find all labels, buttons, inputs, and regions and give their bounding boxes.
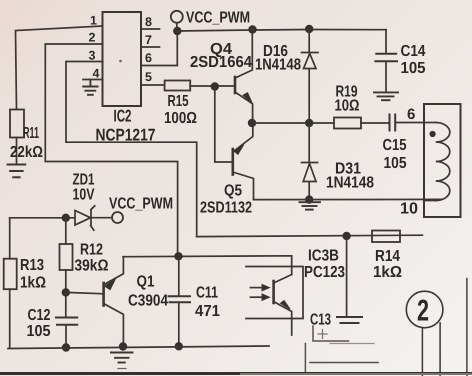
label C11 471 xyxy=(195,285,220,321)
ground at Q1 xyxy=(111,353,133,369)
svg-text:C11: C11 xyxy=(196,285,218,302)
svg-text:3: 3 xyxy=(89,49,96,63)
node ZD1 anode / R12 junction xyxy=(62,214,70,222)
label C15 105 xyxy=(383,137,407,172)
svg-text:R14: R14 xyxy=(375,248,400,265)
label D31 1N4148 xyxy=(326,161,374,192)
scan speck inside IC2 xyxy=(119,60,122,63)
svg-text:10: 10 xyxy=(400,201,418,218)
wire faint lower-left stub xyxy=(330,343,374,345)
bottom scan bar xyxy=(0,372,472,375)
pin 6 xyxy=(145,51,152,65)
node Q4 emitter / Q5 collector junction xyxy=(248,119,256,127)
svg-text:6: 6 xyxy=(145,51,152,65)
pin 1 xyxy=(90,14,97,28)
svg-text:R13: R13 xyxy=(20,257,44,274)
transistor Q1 C3904 xyxy=(66,257,124,347)
svg-text:4: 4 xyxy=(93,67,100,81)
node Q1 collector ground junction xyxy=(119,342,127,350)
svg-text:100Ω: 100Ω xyxy=(164,110,197,127)
svg-text:C3904: C3904 xyxy=(128,293,168,310)
label R13 1kΩ xyxy=(20,257,46,292)
wire pin3 L-shape down to C11 node xyxy=(66,62,197,237)
svg-text:R12: R12 xyxy=(80,242,103,259)
wire left corner down to R13 xyxy=(9,218,11,259)
wire secondary return rail Q5 emitter to transformer pin 10 xyxy=(254,198,442,200)
svg-text:IC2: IC2 xyxy=(114,107,132,126)
diode D31 1N4148 xyxy=(302,123,318,200)
resistor R14 xyxy=(372,231,400,243)
svg-text:1N4148: 1N4148 xyxy=(255,57,301,74)
label C13 xyxy=(310,312,331,329)
wire connector lead right xyxy=(439,323,441,376)
op-amp U1 : IC2 NCP1217 controller body xyxy=(103,12,142,106)
svg-text:C14: C14 xyxy=(401,43,426,60)
wire connector lead left xyxy=(421,328,423,376)
svg-text:PC123: PC123 xyxy=(304,264,345,281)
resistor R11 xyxy=(10,110,24,165)
label Q4 2SD1664 xyxy=(190,41,252,71)
label ZD1 10V xyxy=(73,172,95,204)
node R12 / Q1 base / C12 junction xyxy=(62,288,70,296)
ground at D31 xyxy=(300,202,321,209)
label R12 39kΩ xyxy=(75,242,109,275)
wire base node down to Q5 base xyxy=(215,87,233,163)
capacitor C13 xyxy=(337,236,362,323)
svg-text:105: 105 xyxy=(401,60,426,77)
svg-text:2: 2 xyxy=(89,31,96,45)
svg-text:R11: R11 xyxy=(23,125,39,142)
ground at IC2 pin 4 xyxy=(83,80,97,95)
node C11 / pin3 junction xyxy=(174,252,182,260)
label Q5 2SD1132 xyxy=(200,183,252,217)
resistor R12 xyxy=(60,218,73,293)
svg-text:1: 1 xyxy=(90,14,97,28)
svg-text:471: 471 xyxy=(195,303,220,320)
svg-text:Q1: Q1 xyxy=(137,274,155,291)
transformer T primary winding box xyxy=(424,104,461,217)
pin 7 xyxy=(145,33,152,47)
transistor phototransistor of IC3B xyxy=(274,275,292,336)
svg-text:VCC_PWM: VCC_PWM xyxy=(186,10,250,27)
label R11 22kΩ xyxy=(10,125,43,161)
capacitor C15 xyxy=(390,115,396,131)
optocoupler IC3B PC123 body xyxy=(246,267,303,319)
wire pin5 to R15 xyxy=(141,84,165,86)
transistor Q4 2SD1664 xyxy=(235,30,253,124)
capacitor C14 xyxy=(375,30,397,92)
label transformer pin 10 xyxy=(400,201,418,218)
node VCC_PWM junction dot xyxy=(173,27,181,35)
svg-text:39kΩ: 39kΩ xyxy=(75,258,109,275)
wire pin6 up to VCC_PWM node xyxy=(141,31,177,66)
label IC3B PC123 xyxy=(304,248,345,282)
wire right border edge xyxy=(466,279,468,376)
wire R15 to Q4 base node xyxy=(190,85,233,87)
svg-text:1kΩ: 1kΩ xyxy=(373,264,402,281)
diode D16 1N4148 xyxy=(302,29,319,123)
svg-text:2SD1664: 2SD1664 xyxy=(190,54,252,71)
node R15/Q4/Q5 base junction xyxy=(211,82,219,90)
ground under C14 xyxy=(374,92,398,100)
label VCC_PWM lower xyxy=(109,196,173,213)
pin 2 xyxy=(89,31,96,45)
svg-text:22kΩ: 22kΩ xyxy=(10,144,43,161)
node C12 bottom on ground rail xyxy=(62,343,70,351)
node transformer polarity dot xyxy=(430,131,436,137)
node C13 tap on feedback rail xyxy=(342,232,350,240)
light arrows into phototransistor xyxy=(251,284,270,300)
wire R19 to C15 xyxy=(361,122,390,124)
transistor Q5 2SD1132 xyxy=(233,123,254,200)
pin 7 stub wire xyxy=(141,46,160,48)
svg-text:10V: 10V xyxy=(73,187,95,204)
label IC2 NCP1217 xyxy=(96,107,156,145)
terminal VCC_PWM (lower) xyxy=(112,212,123,223)
svg-text:10Ω: 10Ω xyxy=(335,98,360,115)
label R14 1kΩ xyxy=(373,248,402,281)
svg-text:2: 2 xyxy=(417,295,429,328)
label R15 100Ω xyxy=(164,93,197,127)
wire feedback rail to R14 xyxy=(197,235,423,236)
node C11 bottom on ground rail xyxy=(175,342,183,350)
ground under R11 xyxy=(8,165,26,178)
svg-text:5: 5 xyxy=(145,70,152,84)
wire C15 to transformer pin 6 xyxy=(395,122,424,124)
resistor R15 xyxy=(165,81,191,91)
label 2 xyxy=(417,295,429,328)
svg-text:C15: C15 xyxy=(383,137,407,154)
svg-text:7: 7 xyxy=(145,33,152,47)
terminal circle 2 connector xyxy=(406,291,443,328)
svg-text:6: 6 xyxy=(407,106,415,123)
svg-text:1kΩ: 1kΩ xyxy=(20,275,46,292)
capacitor C12 xyxy=(56,292,77,347)
svg-text:1N4148: 1N4148 xyxy=(326,175,374,192)
wire stub under C13 with polarity mark xyxy=(313,326,349,341)
wire lower horizontal stub xyxy=(310,362,378,364)
label C14 105 xyxy=(401,43,426,77)
capacitor C11 xyxy=(169,256,191,346)
node D16 on rail xyxy=(305,25,313,33)
svg-text:R15: R15 xyxy=(168,93,189,110)
wire emitter rail to optocoupler collector xyxy=(123,256,292,275)
wire pin1 to R11 top corner xyxy=(16,26,103,110)
svg-text:105: 105 xyxy=(384,155,407,172)
resistor R13 xyxy=(4,259,17,348)
svg-text:8: 8 xyxy=(145,15,152,29)
svg-text:VCC_PWM: VCC_PWM xyxy=(109,196,173,213)
wire stub below optocoupler emitter xyxy=(304,344,306,373)
svg-text:C12: C12 xyxy=(28,307,51,324)
zener diode ZD1 10V xyxy=(10,206,112,230)
node D16/D31 on mid rail xyxy=(305,119,313,127)
wire VCC top rail xyxy=(177,30,386,32)
svg-text:IC3B: IC3B xyxy=(308,248,339,265)
terminal VCC_PWM (top) xyxy=(171,11,183,30)
label VCC_PWM top xyxy=(186,10,250,27)
svg-text:Q5: Q5 xyxy=(224,183,242,200)
pin 3 xyxy=(89,49,96,63)
pin 4 xyxy=(93,67,100,81)
svg-text:105: 105 xyxy=(27,323,51,340)
node D31 anode / secondary return xyxy=(305,195,313,203)
label D16 1N4148 xyxy=(255,43,301,74)
pin 8 xyxy=(145,15,152,29)
label transformer pin 6 xyxy=(407,106,415,123)
label C12 105 xyxy=(27,307,51,340)
svg-text:2SD1132: 2SD1132 xyxy=(200,200,252,217)
pin 8 stub wire xyxy=(141,28,160,30)
wire pin4 to ground xyxy=(83,79,103,81)
label R19 10Ω xyxy=(335,84,360,115)
node Q4 collector on rail xyxy=(248,25,256,33)
pin 5 xyxy=(145,70,152,84)
wire driver output mid rail to R19 xyxy=(252,122,334,124)
label Q1 C3904 xyxy=(128,274,168,310)
wire pin2 L-shape down to feedback rail xyxy=(45,44,177,256)
resistor R19 xyxy=(334,118,361,129)
wire bottom ground rail xyxy=(8,346,269,349)
